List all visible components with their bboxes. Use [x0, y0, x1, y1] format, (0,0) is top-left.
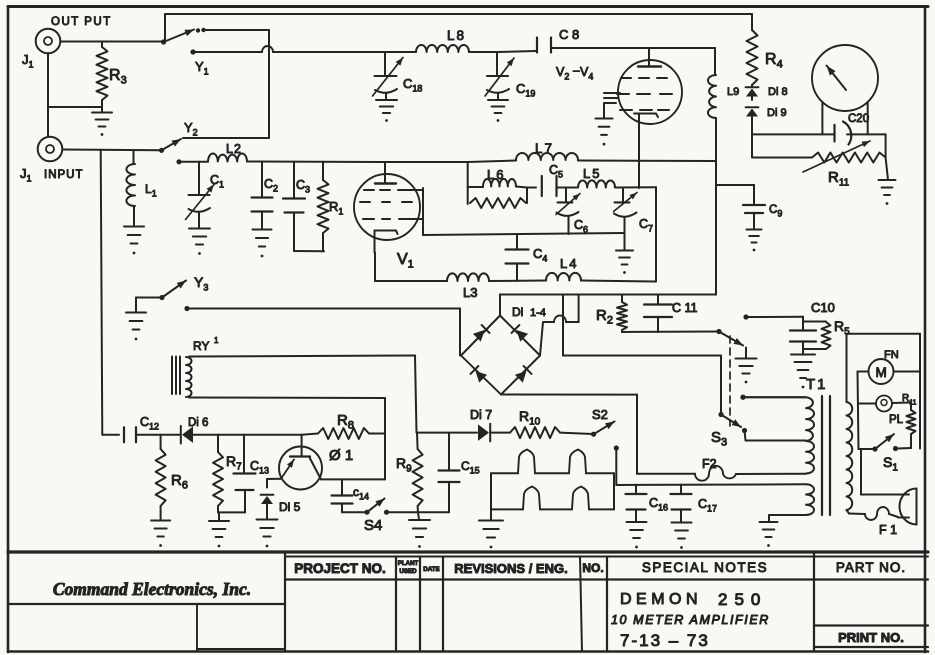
diode Di9	[746, 97, 759, 117]
wire RY1 top rail drop	[415, 356, 417, 433]
svg-text:Y2: Y2	[184, 120, 198, 138]
wire bridge bottom right	[637, 473, 695, 475]
wire R10 to S2	[560, 433, 593, 434]
ground R11	[879, 158, 896, 205]
svg-text:USED: USED	[399, 568, 417, 575]
diode Di7	[478, 424, 490, 442]
label L4	[560, 256, 578, 271]
wire RY1 top rail	[189, 356, 415, 357]
inductor L5	[578, 180, 615, 187]
S3 link dashed	[729, 336, 731, 426]
title PART NO.	[836, 560, 906, 575]
label Y2	[184, 120, 198, 138]
wire y281 c	[581, 281, 656, 282]
resistor R10	[510, 427, 560, 438]
svg-text:R11: R11	[902, 393, 917, 407]
svg-text:J1: J1	[22, 52, 34, 70]
capacitor C9	[743, 205, 765, 229]
motor M (fan)	[869, 359, 894, 384]
svg-text:V2: V2	[556, 65, 569, 82]
wire Di7 to R10	[491, 432, 511, 434]
V2 grid tie bars	[604, 93, 620, 118]
svg-text:R10: R10	[519, 408, 541, 428]
wire RY1 bottom rail drop	[384, 398, 386, 479]
ground R6	[151, 521, 170, 547]
wire vertical x269	[268, 30, 270, 138]
ground C18	[376, 100, 397, 122]
AC plug	[900, 489, 917, 525]
wire C14 to S4	[342, 511, 367, 513]
wire Y3 to ground	[136, 298, 162, 313]
V2 cathode	[634, 114, 658, 189]
svg-text:F 1: F 1	[879, 523, 897, 537]
wire Di5 to Q1	[267, 478, 281, 480]
S3 lower alt contact	[740, 395, 806, 400]
svg-text:RY: RY	[193, 339, 209, 353]
svg-text:OUT PUT: OUT PUT	[51, 16, 112, 28]
svg-text:Di 9: Di 9	[767, 107, 787, 119]
svg-text:C20: C20	[848, 113, 869, 125]
wire to plug top	[861, 494, 909, 496]
connector J1 INPUT	[38, 137, 63, 162]
ground C10	[791, 355, 815, 389]
capacitor C19 (variable)	[485, 52, 514, 100]
wire to C20	[752, 133, 833, 135]
svg-text:SPECIAL NOTES: SPECIAL NOTES	[642, 560, 768, 575]
wire rail y162 a	[179, 161, 208, 163]
inductor L2	[208, 153, 247, 161]
wire up to B+ rail	[578, 295, 580, 323]
wire left rail corner	[102, 434, 119, 436]
tube V1 envelope	[354, 174, 420, 240]
wire R7 C13 bottom	[218, 511, 245, 513]
label R11 meter	[828, 169, 850, 189]
capacitor C11	[644, 295, 672, 333]
label Y3	[194, 274, 208, 293]
switch S4	[364, 499, 389, 515]
resistor L6 damper	[470, 188, 527, 209]
wire J1 input to Y2	[63, 149, 162, 152]
S3 upper throw contact	[743, 314, 803, 319]
inductor L6	[468, 179, 527, 188]
svg-text:REVISIONS / ENG.: REVISIONS / ENG.	[454, 561, 567, 576]
label C10	[811, 300, 835, 315]
ground C2	[253, 230, 272, 258]
svg-text:R4: R4	[765, 51, 783, 71]
tube heaters row2	[491, 487, 614, 510]
capacitor C5	[527, 176, 578, 196]
wire to C9	[716, 185, 754, 204]
svg-text:C15: C15	[461, 459, 480, 476]
svg-text:R2: R2	[596, 307, 613, 327]
T1 core	[822, 396, 830, 515]
ground C7	[616, 235, 633, 274]
svg-text:C17: C17	[698, 497, 717, 514]
label C11	[672, 301, 698, 315]
label L8	[447, 28, 466, 43]
wire M left	[858, 371, 869, 373]
svg-text:L2: L2	[226, 142, 242, 156]
wire rail y162 d	[468, 161, 516, 163]
capacitor C6 (variable)	[556, 188, 580, 235]
svg-text:V1: V1	[397, 251, 414, 271]
wire fan box top	[847, 333, 921, 335]
wire tank right vertical	[655, 187, 657, 281]
fuse F2	[695, 466, 736, 481]
title REVISIONS/ENG.	[454, 561, 567, 576]
wire top rail	[165, 14, 752, 43]
resistor R1	[318, 162, 329, 252]
resistor R3	[97, 42, 108, 108]
capacitor C3	[283, 162, 305, 251]
label S1	[883, 454, 898, 474]
label OUTPUT	[51, 16, 112, 28]
label V2-V4	[556, 63, 593, 82]
label R11 lamp	[902, 393, 917, 407]
svg-text:–: –	[573, 63, 580, 77]
svg-text:Ø 1: Ø 1	[329, 447, 353, 464]
wire J1out down	[47, 54, 49, 137]
node Di7 junction	[0, 0, 1, 1]
svg-text:7-13 – 73: 7-13 – 73	[620, 631, 710, 650]
rectifier bridge Di1-4	[461, 316, 540, 395]
label Di 1-4	[512, 305, 546, 319]
resistor R2	[617, 295, 627, 333]
capacitor C15	[439, 433, 460, 513]
inductor L1	[126, 150, 135, 225]
wire R9 to C15 bottom	[418, 511, 449, 513]
label C17	[698, 497, 717, 514]
wire bridge right up	[540, 316, 579, 356]
svg-text:R9: R9	[396, 455, 412, 475]
label S2	[592, 407, 608, 422]
svg-text:Di 8: Di 8	[768, 86, 788, 98]
capacitor C20	[835, 122, 852, 145]
svg-text:L8: L8	[447, 28, 466, 43]
label R4	[765, 51, 783, 71]
svg-text:C16: C16	[649, 496, 668, 513]
node Y2 lower contact	[176, 159, 181, 164]
svg-text:R8: R8	[337, 412, 354, 432]
label V1	[397, 251, 414, 271]
title SPECIAL NOTES	[642, 560, 768, 575]
node bias line start	[184, 306, 189, 311]
wire grid rail y235	[423, 233, 624, 235]
V1 grid dashes	[360, 190, 412, 219]
wire Di7 row a	[417, 432, 477, 434]
label L6	[487, 167, 505, 182]
resistor R7	[213, 435, 223, 513]
label C12	[140, 415, 159, 432]
resistor R11 lamp	[897, 403, 916, 449]
svg-text:L6: L6	[487, 167, 505, 182]
V1 plate bar	[375, 182, 396, 184]
svg-text:Di 6: Di 6	[188, 417, 208, 429]
wire M right	[894, 371, 921, 373]
svg-text:R6: R6	[171, 472, 188, 492]
switch S2	[591, 422, 615, 437]
svg-text:DATE: DATE	[423, 566, 439, 573]
svg-text:DEMON: DEMON	[620, 591, 702, 608]
wire input down-left rail	[101, 150, 103, 434]
resistor R9	[413, 433, 423, 513]
transistor Q1	[279, 435, 322, 490]
switch Y1 common arm	[161, 28, 206, 45]
svg-text:L5: L5	[583, 166, 601, 181]
meter leads	[822, 102, 867, 134]
diode Di6	[181, 426, 193, 444]
ground C16	[627, 522, 647, 548]
ground C19	[488, 100, 508, 122]
wire heater rail y485	[616, 483, 806, 486]
label R2	[596, 307, 613, 327]
svg-text:C6: C6	[574, 218, 588, 235]
diode Di8	[746, 87, 759, 96]
wire bias line y308	[187, 308, 460, 310]
wire bridge top stub	[499, 295, 501, 316]
ground C9	[747, 230, 762, 252]
label R6	[171, 472, 188, 492]
wire bridge left vertical	[459, 309, 461, 356]
wire rail B y355	[563, 355, 721, 357]
label R7	[226, 453, 242, 473]
svg-text:L1: L1	[145, 182, 157, 199]
connector J1 OUTPUT	[36, 29, 61, 54]
capacitor C17	[671, 485, 692, 522]
inductor L9	[708, 75, 716, 118]
wire to R3 ground	[48, 106, 102, 108]
capacitor C12	[124, 427, 180, 442]
resistor R8	[302, 428, 385, 439]
label Di9	[767, 107, 787, 119]
label R10	[519, 408, 541, 428]
svg-text:C19: C19	[516, 81, 535, 99]
wire Q1 emitter	[321, 478, 385, 480]
node Y1 contact	[190, 49, 195, 54]
svg-text:S4: S4	[364, 517, 382, 534]
inductor L8	[416, 45, 469, 52]
resistor R5	[803, 322, 831, 350]
label C7	[639, 217, 653, 234]
label C16	[649, 496, 668, 513]
svg-text:Di 5: Di 5	[279, 500, 301, 514]
label C9	[769, 204, 782, 219]
label C15	[461, 459, 480, 476]
label C1	[210, 173, 224, 190]
note date 7-13-73	[620, 631, 710, 650]
wire C8 to V2 top	[551, 48, 715, 66]
svg-text:C12: C12	[140, 415, 159, 432]
label J1 input	[20, 166, 32, 184]
svg-text:C9: C9	[769, 204, 782, 219]
svg-text:Y1: Y1	[195, 59, 209, 77]
capacitor C10	[790, 317, 816, 355]
wire Y1 rail	[193, 46, 536, 52]
label Di5	[279, 500, 301, 514]
label T1	[806, 376, 828, 393]
ground heaters	[479, 521, 503, 549]
svg-text:PART NO.: PART NO.	[836, 560, 906, 575]
inductor L4	[546, 273, 581, 281]
svg-text:PLANT: PLANT	[398, 560, 419, 567]
capacitor C4	[506, 235, 529, 281]
ground L1	[124, 227, 144, 255]
resistor R4	[747, 14, 758, 87]
inductor L3	[447, 273, 489, 281]
ground T1	[760, 522, 778, 547]
label INPUT	[44, 169, 84, 181]
svg-text:T1: T1	[806, 376, 828, 393]
label L2	[226, 142, 242, 156]
svg-text:C18: C18	[403, 76, 422, 94]
svg-text:L4: L4	[560, 256, 578, 271]
svg-text:C10: C10	[811, 300, 835, 315]
capacitor C14	[332, 479, 353, 512]
V2 plate bar	[638, 65, 661, 67]
svg-text:1: 1	[214, 336, 219, 345]
tube heaters row1	[491, 450, 614, 474]
capacitor C18 (variable)	[373, 52, 404, 100]
wire Y2 contact row	[183, 137, 269, 139]
ground Y3	[126, 313, 146, 341]
fuse F1	[849, 507, 898, 520]
label J1 output	[22, 52, 34, 70]
svg-text:L3: L3	[463, 285, 477, 300]
label Q1	[329, 447, 353, 464]
wire fan box right	[919, 334, 921, 449]
svg-text:C2: C2	[264, 177, 278, 194]
wire rail y162 b	[247, 161, 385, 164]
label Di8	[768, 86, 788, 98]
wire heater left	[490, 473, 492, 520]
label C18	[403, 76, 422, 94]
title PLANT USED	[398, 560, 419, 575]
wire y281 b	[489, 280, 546, 283]
svg-text:S1: S1	[883, 454, 898, 474]
ground V2 grid	[596, 119, 613, 146]
svg-text:R1: R1	[329, 199, 343, 217]
svg-text:250: 250	[718, 590, 767, 609]
svg-text:Command Electronics, Inc.: Command Electronics, Inc.	[53, 579, 251, 599]
title block grid	[8, 552, 928, 652]
wire L9 down	[715, 118, 717, 295]
label L3	[463, 285, 477, 300]
svg-text:INPUT: INPUT	[44, 169, 84, 181]
svg-text:C7: C7	[639, 217, 653, 234]
svg-text:PL: PL	[889, 414, 904, 426]
label R8	[337, 412, 354, 432]
wire V2 plate rail down	[714, 48, 716, 75]
label Di6	[188, 417, 208, 429]
resistor R11 (meter shunt)	[752, 141, 886, 172]
svg-text:R3: R3	[109, 67, 127, 87]
wire bias rail y434	[193, 434, 302, 436]
switch S1	[872, 434, 898, 452]
label C3	[296, 178, 310, 195]
ground R7	[209, 512, 229, 547]
wire L5 to corner	[615, 186, 656, 188]
meter M1	[812, 45, 878, 111]
V2 grid dashes	[617, 78, 672, 110]
label F1	[879, 523, 897, 537]
wire rail y162 c	[385, 161, 468, 163]
wire T1 primary bottom	[769, 515, 806, 522]
capacitor C1 (variable)	[186, 162, 215, 228]
wire rail y162 e	[578, 160, 716, 163]
switch S3 lower pole	[718, 412, 741, 427]
wire y281 a	[375, 280, 447, 282]
label FN	[884, 349, 899, 361]
label PL	[889, 414, 904, 426]
label C4	[533, 246, 547, 264]
svg-text:PROJECT NO.: PROJECT NO.	[294, 561, 386, 576]
ground Di5	[257, 520, 278, 548]
label R3	[109, 67, 127, 87]
ground R3	[92, 107, 112, 136]
ground C1	[189, 229, 210, 255]
title PRINT NO.	[838, 630, 904, 645]
title PROJECT NO.	[294, 561, 386, 576]
label R1	[329, 199, 343, 217]
svg-text:Di 7: Di 7	[470, 408, 492, 422]
wire rail A y332	[622, 331, 719, 334]
wire heater feed down	[615, 448, 617, 485]
label S3	[711, 429, 727, 449]
ground C17	[672, 523, 692, 549]
svg-text:C4: C4	[533, 246, 547, 264]
label C13	[250, 459, 269, 476]
svg-text:1-4: 1-4	[530, 307, 546, 319]
note 10 METER AMPLIFIER	[611, 613, 770, 627]
label RY1	[193, 336, 219, 353]
svg-text:Y3: Y3	[194, 274, 208, 293]
svg-text:S2: S2	[592, 407, 608, 422]
wire RY1 bottom rail	[189, 397, 385, 400]
S3 lower throw contact	[742, 428, 806, 441]
label C14	[353, 485, 369, 502]
svg-text:L7: L7	[535, 141, 554, 156]
svg-text:10 METER AMPLIFIER: 10 METER AMPLIFIER	[611, 613, 770, 627]
svg-text:S3: S3	[711, 429, 727, 449]
switch Y2	[159, 139, 181, 153]
label C19	[516, 81, 535, 99]
switch S3 upper pole	[716, 329, 743, 346]
relay RY1 core	[172, 357, 180, 395]
svg-text:FN: FN	[884, 349, 899, 361]
wire B+ rail y294	[500, 294, 716, 296]
label C2	[264, 177, 278, 194]
wire cathode down	[374, 253, 377, 282]
svg-text:c14: c14	[353, 485, 369, 502]
svg-text:NO.: NO.	[582, 561, 603, 575]
node heater feed	[614, 445, 619, 450]
svg-text:R11: R11	[828, 169, 850, 189]
label C5	[549, 163, 563, 180]
title DATE	[423, 566, 439, 573]
capacitor C2	[252, 162, 273, 229]
label C20	[848, 113, 869, 125]
note DEMON 250	[620, 590, 767, 609]
V1 cathode	[375, 231, 398, 253]
capacitor C8	[537, 38, 551, 53]
tube V2 envelope	[618, 60, 682, 124]
label S4	[364, 517, 382, 534]
wire F2 to T1	[736, 473, 806, 475]
svg-text:R7: R7	[226, 453, 242, 473]
svg-text:L9: L9	[727, 86, 739, 98]
svg-text:Di: Di	[512, 305, 523, 319]
wire T1 primary top	[740, 395, 806, 400]
